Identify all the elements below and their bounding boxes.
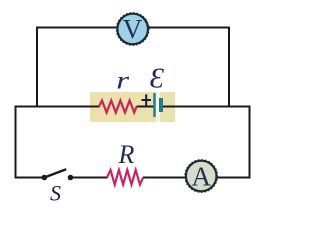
svg-text:R: R xyxy=(118,140,135,169)
voltmeter V xyxy=(117,14,148,45)
wire top-right horizontal (from voltmeter) xyxy=(149,27,231,29)
wire ammeter to right corner xyxy=(217,177,251,179)
svg-text:Ɛ: Ɛ xyxy=(150,63,165,95)
svg-text:r: r xyxy=(116,67,130,94)
resistor R zigzag xyxy=(107,170,143,185)
battery short plate (-) xyxy=(159,98,163,112)
resistor r (internal resistance zigzag) xyxy=(99,101,137,113)
battery plus sign xyxy=(142,99,152,101)
wire battery rail left segment xyxy=(15,106,100,108)
wire battery rail right segment xyxy=(161,106,251,108)
wire bottom rail: corner to switch xyxy=(15,177,43,179)
battery long plate (+) xyxy=(153,93,155,117)
wire right outer vertical xyxy=(249,106,251,179)
wire left inner vertical xyxy=(36,27,38,108)
ammeter A xyxy=(186,161,217,192)
wire resistor-to-plate segment xyxy=(137,106,155,108)
wire left outer vertical xyxy=(15,106,17,179)
wire switch to resistor R xyxy=(71,177,108,179)
wire right inner vertical xyxy=(228,27,230,108)
wire resistor R to ammeter xyxy=(143,177,186,179)
switch S contact dot xyxy=(68,175,74,181)
switch S pivot dot xyxy=(42,175,48,181)
svg-text:A: A xyxy=(191,161,211,191)
svg-text:V: V xyxy=(123,14,143,44)
battery gap light strip xyxy=(156,92,160,122)
battery highlight box xyxy=(90,92,175,122)
wire top-left horizontal (to voltmeter) xyxy=(36,27,117,29)
svg-text:S: S xyxy=(50,180,61,205)
switch S blade xyxy=(44,169,66,177)
